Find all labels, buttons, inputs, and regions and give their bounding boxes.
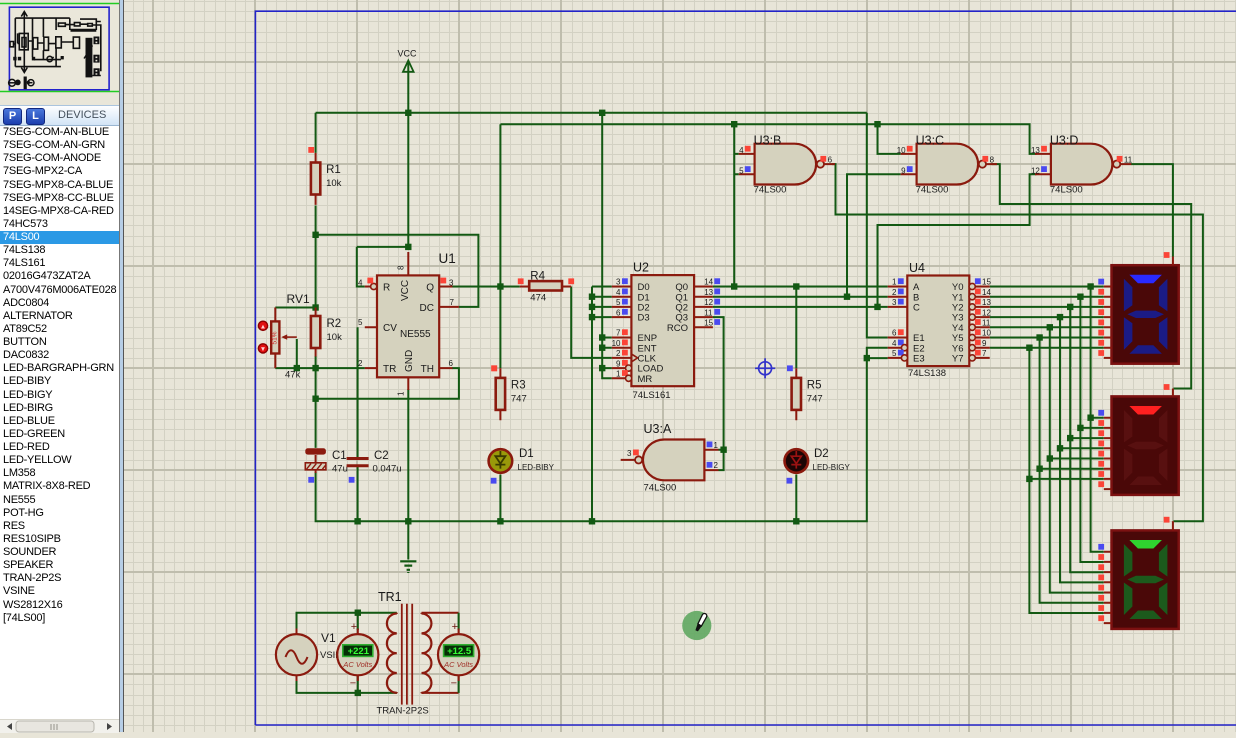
svg-text:LED-BIBY: LED-BIBY xyxy=(518,463,555,472)
wire primary loop V1 to TR1 xyxy=(297,613,397,693)
svg-text:1: 1 xyxy=(714,441,719,450)
svg-text:U1: U1 xyxy=(439,251,456,266)
svg-text:R2: R2 xyxy=(327,318,342,330)
svg-text:R4: R4 xyxy=(530,271,545,283)
svg-text:1: 1 xyxy=(892,278,897,287)
wire node R1/R2/RV1-top to U1 DC xyxy=(275,206,478,308)
wire U3:C output to red display anode xyxy=(992,164,1192,388)
svg-text:1: 1 xyxy=(397,391,406,396)
svg-text:R: R xyxy=(383,283,390,294)
marker R5 state xyxy=(787,365,793,371)
svg-text:5: 5 xyxy=(616,298,621,307)
svg-text:+: + xyxy=(452,621,458,633)
svg-text:E3: E3 xyxy=(913,354,925,365)
svg-text:3: 3 xyxy=(449,279,454,288)
svg-text:RCO: RCO xyxy=(667,323,688,334)
resistor R1 xyxy=(308,147,341,205)
svg-text:−: − xyxy=(350,678,356,690)
svg-text:+221: +221 xyxy=(348,646,370,657)
svg-text:6: 6 xyxy=(828,156,833,165)
wire ground rail net xyxy=(316,348,888,560)
svg-text:12: 12 xyxy=(1031,167,1040,176)
svg-text:4: 4 xyxy=(739,146,744,155)
svg-text:74LS138: 74LS138 xyxy=(908,368,946,379)
junctions D-input bus xyxy=(589,294,595,321)
svg-text:▼: ▼ xyxy=(260,346,266,353)
svg-text:MR: MR xyxy=(638,374,653,385)
svg-text:U3:A: U3:A xyxy=(644,422,672,436)
sheet border (blue) xyxy=(255,11,1236,725)
svg-text:5: 5 xyxy=(739,167,744,176)
NAND gate U3:A 74LS00 xyxy=(621,422,719,493)
svg-text:VCC: VCC xyxy=(398,49,418,59)
svg-text:R3: R3 xyxy=(511,379,526,391)
svg-text:2: 2 xyxy=(358,359,363,368)
svg-text:10: 10 xyxy=(982,329,991,338)
svg-text:9: 9 xyxy=(616,359,621,368)
svg-text:13: 13 xyxy=(704,288,713,297)
wire segment bus taps to red and green displays xyxy=(1029,287,1103,614)
svg-text:V1: V1 xyxy=(321,631,336,645)
svg-text:C: C xyxy=(913,303,920,314)
svg-text:3: 3 xyxy=(627,449,632,458)
wire U3:D output to blue display anode xyxy=(1131,164,1173,256)
junctions VCC net xyxy=(405,110,605,372)
svg-text:TR: TR xyxy=(383,364,396,375)
svg-text:7: 7 xyxy=(616,329,621,338)
svg-text:Y7: Y7 xyxy=(952,354,964,365)
svg-text:3: 3 xyxy=(892,298,897,307)
svg-text:7: 7 xyxy=(450,298,455,307)
svg-text:14: 14 xyxy=(704,278,713,287)
svg-text:6: 6 xyxy=(616,308,621,317)
svg-text:10: 10 xyxy=(612,339,621,348)
junctions ground rail xyxy=(354,355,870,525)
svg-text:DC: DC xyxy=(420,303,434,314)
svg-text:51%: 51% xyxy=(272,331,279,344)
svg-text:GND: GND xyxy=(404,350,415,372)
svg-text:4: 4 xyxy=(616,288,621,297)
svg-text:13: 13 xyxy=(982,298,991,307)
svg-text:2: 2 xyxy=(892,288,897,297)
svg-text:U3:B: U3:B xyxy=(754,133,782,147)
wire U3:B output to green display anode xyxy=(832,164,1203,521)
resistor R2 xyxy=(311,308,342,357)
svg-text:U4: U4 xyxy=(909,261,925,275)
svg-text:11: 11 xyxy=(1124,156,1133,165)
svg-text:NE555: NE555 xyxy=(400,329,431,340)
svg-text:Q: Q xyxy=(426,283,434,294)
svg-text:12: 12 xyxy=(704,298,713,307)
svg-text:AC Volts: AC Volts xyxy=(342,660,372,669)
AC voltmeter primary xyxy=(337,621,378,690)
svg-text:14: 14 xyxy=(982,288,991,297)
svg-text:74LS00: 74LS00 xyxy=(644,482,677,493)
svg-text:VCC: VCC xyxy=(400,280,411,301)
resistor R5 xyxy=(792,368,823,420)
svg-text:R5: R5 xyxy=(807,379,822,391)
svg-text:5: 5 xyxy=(892,349,897,358)
junctions R1-R2 node xyxy=(312,232,318,311)
source V1 VSINE xyxy=(276,629,349,682)
svg-text:74LS161: 74LS161 xyxy=(633,390,671,401)
svg-text:9: 9 xyxy=(982,339,987,348)
svg-text:11: 11 xyxy=(982,319,991,328)
wire U2 data inputs D0-D3 to ground xyxy=(592,287,612,522)
NAND gate U3:C 74LS00 xyxy=(897,133,997,195)
junctions primary loop xyxy=(355,610,361,697)
7-segment display blue 7SEG-COM-AN-BLUE xyxy=(1098,252,1178,364)
NAND gate U3:D 74LS00 xyxy=(1031,133,1133,195)
svg-text:474: 474 xyxy=(530,293,546,304)
svg-text:6: 6 xyxy=(449,359,454,368)
svg-text:D3: D3 xyxy=(638,313,650,324)
capacitor C1 xyxy=(305,448,348,482)
wire Q0 row U2 to U4.A and R5 xyxy=(713,287,888,369)
svg-text:+12.5: +12.5 xyxy=(447,646,472,657)
overview viewport rectangle xyxy=(9,7,109,90)
svg-text:+: + xyxy=(351,621,357,633)
svg-text:−: − xyxy=(451,678,457,690)
svg-text:RV1: RV1 xyxy=(287,292,310,306)
svg-text:3: 3 xyxy=(616,278,621,287)
junctions segment bus xyxy=(1026,283,1094,482)
wire node TR/TH/R2-bottom/RV1 xyxy=(275,339,459,448)
resistor R4 xyxy=(518,271,574,304)
svg-text:47u: 47u xyxy=(332,464,348,475)
svg-text:11: 11 xyxy=(704,308,713,317)
svg-text:5: 5 xyxy=(358,318,363,327)
svg-text:4: 4 xyxy=(358,279,363,288)
origin marker xyxy=(755,358,775,378)
svg-text:74LS00: 74LS00 xyxy=(916,185,949,196)
junctions Q0 row xyxy=(731,283,800,289)
svg-text:C2: C2 xyxy=(374,450,389,462)
LED D1 LED-BIBY xyxy=(489,448,555,484)
svg-text:1: 1 xyxy=(616,370,621,379)
svg-text:13: 13 xyxy=(1031,146,1040,155)
svg-text:15: 15 xyxy=(982,278,991,287)
svg-text:4: 4 xyxy=(892,339,897,348)
potentiometer RV1 xyxy=(258,292,310,381)
svg-text:0.047u: 0.047u xyxy=(373,464,402,475)
wire Y0-Y7 rows U4 to blue display segments xyxy=(990,287,1104,348)
capacitor C2 xyxy=(347,327,402,482)
svg-text:6: 6 xyxy=(892,329,897,338)
junction Q3 row xyxy=(720,447,726,453)
7-segment display green 7SEG-COM-AN-GRN xyxy=(1098,517,1178,629)
svg-text:2: 2 xyxy=(616,349,621,358)
counter U2 74LS161 xyxy=(612,261,721,402)
svg-text:10k: 10k xyxy=(327,332,343,343)
svg-text:TH: TH xyxy=(421,364,434,375)
svg-text:R1: R1 xyxy=(326,164,341,176)
svg-text:C1: C1 xyxy=(332,450,347,462)
svg-text:7: 7 xyxy=(982,349,987,358)
overview mini schematic xyxy=(10,12,101,73)
NAND gate U3:B 74LS00 xyxy=(739,133,835,195)
svg-text:U3:D: U3:D xyxy=(1050,133,1078,147)
svg-text:12: 12 xyxy=(982,308,991,317)
svg-text:74LS00: 74LS00 xyxy=(1050,185,1083,196)
svg-text:47k: 47k xyxy=(285,370,301,381)
wire U1 Q output net: R4, R3, rail to gate inputs xyxy=(452,124,1036,368)
svg-text:747: 747 xyxy=(511,393,527,404)
svg-text:AC Volts: AC Volts xyxy=(443,660,473,669)
svg-text:15: 15 xyxy=(704,319,713,328)
transformer TR1 TRAN-2P2S xyxy=(377,590,432,717)
svg-text:D1: D1 xyxy=(519,448,534,460)
LED D2 LED-BIGY xyxy=(785,448,851,484)
op-amp/timer U1 NE555 xyxy=(358,251,459,396)
svg-text:8: 8 xyxy=(397,265,406,270)
pencil cursor xyxy=(682,611,711,640)
junctions Q net xyxy=(497,121,881,290)
svg-text:D2: D2 xyxy=(814,448,829,460)
svg-text:2: 2 xyxy=(714,461,719,470)
resistor R3 xyxy=(491,365,526,420)
wire VCC net: power rail, U2 enables, U1 reset xyxy=(316,62,888,378)
junctions TR node xyxy=(294,365,319,402)
wire Q1 row U2 to U4.B and U3:C input xyxy=(713,174,901,296)
wire Q3 row U2 to U3:A inputs xyxy=(713,317,724,470)
AC voltmeter secondary xyxy=(438,621,479,690)
wire Q2 row U2 to U4.C and U3:D input xyxy=(713,174,1037,307)
junction Q2 row xyxy=(874,304,880,310)
svg-text:74LS00: 74LS00 xyxy=(754,185,787,196)
svg-text:▲: ▲ xyxy=(260,323,266,330)
svg-text:8: 8 xyxy=(990,156,995,165)
overview pane background xyxy=(0,0,119,105)
junction Q1 row xyxy=(844,294,850,300)
marker R3 state xyxy=(491,365,497,371)
wire secondary loop TR1 to AC voltmeter xyxy=(422,613,459,693)
7-segment display red 7SEG-COM-ANODE xyxy=(1098,384,1178,495)
svg-text:747: 747 xyxy=(807,393,823,404)
ground symbol xyxy=(400,561,416,573)
svg-text:CV: CV xyxy=(383,323,397,334)
svg-text:TRAN-2P2S: TRAN-2P2S xyxy=(377,706,429,717)
svg-text:U3:C: U3:C xyxy=(916,133,944,147)
svg-text:10: 10 xyxy=(897,146,906,155)
decoder U4 74LS138 xyxy=(888,261,992,379)
svg-text:10k: 10k xyxy=(326,178,342,189)
svg-text:LED-BIGY: LED-BIGY xyxy=(813,463,851,472)
svg-text:U2: U2 xyxy=(633,261,649,275)
svg-text:9: 9 xyxy=(901,167,906,176)
svg-text:TR1: TR1 xyxy=(378,590,402,604)
power symbol VCC xyxy=(398,49,418,72)
